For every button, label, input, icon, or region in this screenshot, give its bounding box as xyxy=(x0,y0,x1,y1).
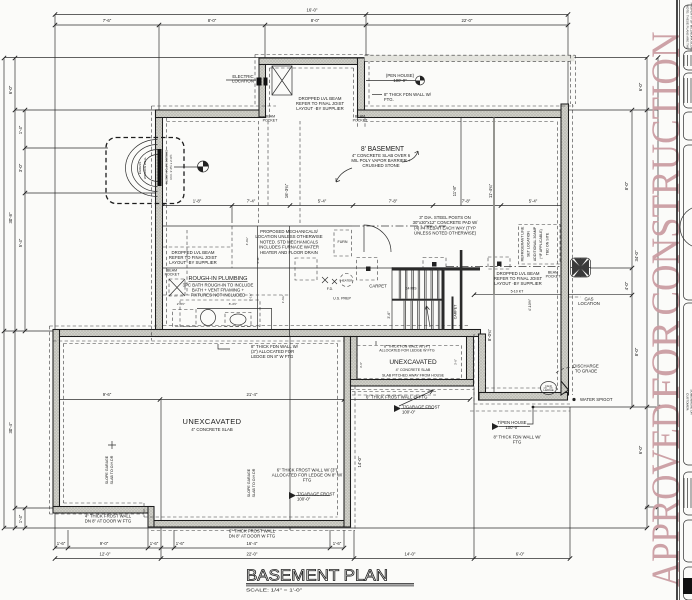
egress window well dashed box xyxy=(106,138,184,204)
extension y331 xyxy=(4,330,54,332)
wall: garage front step xyxy=(148,507,154,528)
extension y268 xyxy=(590,267,632,269)
strip circle xyxy=(680,206,692,248)
porch note leader xyxy=(375,341,377,345)
svg-text:SLIDER 3'0x2'0 EGRESS: SLIDER 3'0x2'0 EGRESS xyxy=(165,150,169,184)
svg-text:100'-0": 100'-0" xyxy=(297,497,311,502)
stair mid rail xyxy=(392,299,444,301)
svg-text:HEATER AND FLOOR DRAIN: HEATER AND FLOOR DRAIN xyxy=(260,250,318,255)
wall: patio bottom xyxy=(479,393,568,401)
ext x290 through garage xyxy=(289,336,291,530)
floor drain marks xyxy=(322,277,337,284)
extension y148 xyxy=(25,147,108,149)
extension x366 xyxy=(365,15,367,59)
garage dash east outer xyxy=(354,386,356,531)
footing dash entry inner xyxy=(270,67,354,69)
svg-text:SLOPE GARAGE: SLOPE GARAGE xyxy=(247,468,251,497)
sheet border line xyxy=(676,0,678,600)
svg-text:SLAB TO O.H.DR: SLAB TO O.H.DR xyxy=(252,468,256,497)
svg-text:21'-4": 21'-4" xyxy=(247,392,258,397)
stair treads lower run xyxy=(403,301,405,330)
wall: garage front left xyxy=(53,507,151,514)
gray beam line x494 xyxy=(493,118,495,296)
patio bottom outer dash 2 xyxy=(470,410,570,412)
T/pen house triangle marker xyxy=(492,423,499,430)
wall: patio left xyxy=(479,334,486,400)
svg-text:1'-6": 1'-6" xyxy=(57,541,66,546)
svg-text:SLAB PITCHED AWAY FROM HOUSE: SLAB PITCHED AWAY FROM HOUSE xyxy=(382,374,445,378)
ext x354 xyxy=(353,530,355,559)
title strip box 5 xyxy=(684,145,692,300)
garage dash inner bottom xyxy=(144,516,338,518)
line y268 interior xyxy=(163,267,392,269)
footing dash south inner xyxy=(163,325,470,327)
bottom dim row1 xyxy=(55,547,344,549)
svg-text:FIXTURES NOT INCLUDED: FIXTURES NOT INCLUDED xyxy=(191,293,246,298)
long extension y528 xyxy=(4,527,647,529)
interior wall x460 stairs xyxy=(460,250,463,330)
svg-text:DN 8" AT DOOR W FTG: DN 8" AT DOOR W FTG xyxy=(229,534,276,539)
footing dash entry east inner xyxy=(353,68,355,118)
svg-text:1'-4": 1'-4" xyxy=(18,514,23,523)
right dim x658 xyxy=(657,58,659,529)
svg-text:ALLOCATED FOR LEDGE W FTG: ALLOCATED FOR LEDGE W FTG xyxy=(379,349,435,353)
title strip box 9 xyxy=(684,567,692,600)
beam pocket X-box at entry xyxy=(272,66,292,95)
svg-text:14 RIS: 14 RIS xyxy=(406,287,418,291)
extension y110 left xyxy=(15,109,157,111)
garage dash west outer xyxy=(49,326,51,514)
porch bottom outer dash xyxy=(351,389,475,391)
leader 8in fdn wall note xyxy=(372,94,382,96)
left dim line x15 xyxy=(14,58,16,528)
svg-text:3'-11": 3'-11" xyxy=(256,256,260,263)
title strip box 4 xyxy=(684,112,692,140)
rear porch dash east 1 xyxy=(570,55,572,104)
svg-text:3'-6": 3'-6" xyxy=(387,311,391,319)
title strip box 1 xyxy=(684,5,692,49)
patio dim x494 xyxy=(493,295,495,400)
datum symbol 2 (pen house) xyxy=(416,76,425,85)
extension line x55 full height xyxy=(54,15,56,549)
hall dash x365 xyxy=(364,118,366,130)
extension y110 right xyxy=(565,109,658,111)
ext x174 xyxy=(173,530,175,548)
ext x148 xyxy=(147,514,149,548)
porch inner dashed rect xyxy=(357,346,462,379)
svg-text:CONSTRUCTION: CONSTRUCTION xyxy=(643,32,688,316)
svg-text:8'-0": 8'-0" xyxy=(624,181,629,190)
swoosh arrow basement note xyxy=(336,168,352,182)
svg-text:CARPET: CARPET xyxy=(454,304,458,319)
ext x474 xyxy=(473,388,475,559)
footing dash west outer xyxy=(151,106,153,341)
egress window well arcs xyxy=(126,140,158,197)
svg-text:EGRESS: EGRESS xyxy=(138,162,142,175)
svg-text:CUSTOMER:: CUSTOMER: xyxy=(686,393,690,411)
garage dash inner east xyxy=(337,344,339,518)
garage dash front-left outer xyxy=(50,513,145,515)
patio bottom inner dash xyxy=(486,387,557,389)
svg-text:LEDGE: LEDGE xyxy=(543,388,553,392)
svg-text:8'-0": 8'-0" xyxy=(208,18,217,23)
extension y193 xyxy=(25,192,157,194)
svg-text:ROUGH-IN PLUMBING: ROUGH-IN PLUMBING xyxy=(188,276,247,282)
svg-text:7'-8": 7'-8" xyxy=(462,199,471,204)
wall: house east xyxy=(561,104,569,395)
svg-text:POCKET: POCKET xyxy=(263,119,279,123)
svg-text:SLOPE GARAGE: SLOPE GARAGE xyxy=(105,455,109,484)
footing dash north-right inner xyxy=(365,121,555,123)
rear porch dashed wall band xyxy=(365,55,575,61)
datum symbol 1 xyxy=(198,161,209,172)
svg-text:30'-8": 30'-8" xyxy=(8,212,13,223)
wall: patio corner diagonal xyxy=(561,381,569,395)
footing dash east outer xyxy=(572,104,574,395)
hall dash x258 xyxy=(258,121,260,223)
dim row B top xyxy=(55,24,568,26)
svg-text:7'-1¾": 7'-1¾" xyxy=(249,293,253,301)
shower ellipse xyxy=(230,314,246,325)
hall dash x300 xyxy=(299,121,301,223)
t/pen house leader xyxy=(527,408,533,424)
ledge oval xyxy=(541,382,557,395)
patio dim y295 xyxy=(474,294,566,296)
svg-text:F.D.: F.D. xyxy=(327,287,333,291)
svg-text:WATER SPIGOT: WATER SPIGOT xyxy=(580,397,613,402)
refrigerant dashed box xyxy=(519,225,561,265)
stair treads upper run xyxy=(398,271,400,299)
svg-text:100'-0": 100'-0" xyxy=(402,410,416,415)
ext x461 xyxy=(460,118,462,206)
svg-text:9'-0": 9'-0" xyxy=(100,541,109,546)
svg-text:5'-4": 5'-4" xyxy=(529,199,538,204)
porch frost wall dash 2 xyxy=(352,394,436,396)
beam dash-dot east segment xyxy=(446,266,560,268)
svg-text:3'-6": 3'-6" xyxy=(454,359,458,365)
left dim x25 lower xyxy=(24,508,26,528)
left dim line x25 xyxy=(24,110,26,331)
svg-text:3'-0": 3'-0" xyxy=(18,163,23,172)
footing dash south lower xyxy=(53,340,344,342)
svg-text:7'-6": 7'-6" xyxy=(103,18,112,23)
svg-text:WINDOW WELL: WINDOW WELL xyxy=(143,157,147,179)
leader arrow porch xyxy=(399,390,433,406)
wall: entry east jog xyxy=(358,58,365,117)
svg-text:5'-4": 5'-4" xyxy=(318,199,327,204)
svg-text:LAYOUT ·BY SUPPLIER: LAYOUT ·BY SUPPLIER xyxy=(296,106,344,111)
svg-text:7'-4": 7'-4" xyxy=(247,199,256,204)
svg-text:SET LOCATION: SET LOCATION xyxy=(527,231,531,257)
svg-text:FTG: FTG xyxy=(513,440,522,445)
svg-text:1'-6": 1'-6" xyxy=(150,541,159,546)
svg-text:FTG.: FTG. xyxy=(384,97,394,102)
ext x68 xyxy=(67,530,69,548)
footing dash entry outer xyxy=(255,54,369,56)
steel post dashed box 2 xyxy=(423,258,446,270)
svg-text:APPROVED: APPROVED xyxy=(643,403,688,587)
wall: garage west xyxy=(53,330,60,511)
ext x232 xyxy=(231,206,233,224)
long extension y57.5 xyxy=(4,57,647,59)
left dim line outer x4 xyxy=(3,58,5,528)
garage dash inner step xyxy=(143,503,145,517)
wall: porch left xyxy=(351,337,358,387)
svg-text:DN 8" AT DOOR W FTG: DN 8" AT DOOR W FTG xyxy=(85,519,132,524)
T/garage frost triangle marker (center) xyxy=(289,492,296,499)
svg-text:12'-0": 12'-0" xyxy=(100,552,111,557)
T/garage frost triangle marker (right) xyxy=(394,405,401,412)
svg-text:HEATER: HEATER xyxy=(341,279,354,283)
svg-text:6'-0": 6'-0" xyxy=(516,552,525,557)
svg-text:1'-4": 1'-4" xyxy=(18,125,23,134)
svg-text:LOCATION: LOCATION xyxy=(232,79,254,84)
svg-text:REFRIGERANT LINE: REFRIGERANT LINE xyxy=(521,226,525,261)
beam dash-dot mid segment xyxy=(352,225,446,227)
svg-text:7'-8": 7'-8" xyxy=(389,199,398,204)
svg-text:34'-0": 34'-0" xyxy=(634,250,639,261)
wall: garage east xyxy=(344,337,351,528)
svg-text:4'-0": 4'-0" xyxy=(624,281,629,290)
porch frost wall dash 1 xyxy=(352,391,436,393)
garage dash inner top xyxy=(64,343,338,345)
title strip box 2 xyxy=(684,51,692,70)
wall: north right segment xyxy=(358,110,565,118)
svg-text:5'-4": 5'-4" xyxy=(18,238,23,247)
title strip box 8 xyxy=(684,520,692,562)
svg-text:BASEMENT PLAN: BASEMENT PLAN xyxy=(246,568,388,585)
extension x265 xyxy=(264,25,266,58)
garage dash inner bottom-left xyxy=(64,502,145,504)
svg-text:16'-4": 16'-4" xyxy=(247,541,258,546)
stair right wall xyxy=(442,271,445,331)
svg-text:LAYOUT ·BY SUPPLIER: LAYOUT ·BY SUPPLIER xyxy=(169,260,217,265)
hall dash x357 xyxy=(357,118,359,130)
svg-text:1'-6": 1'-6" xyxy=(333,541,342,546)
svg-text:4" CONCRETE SLAB: 4" CONCRETE SLAB xyxy=(396,368,431,372)
toilet ellipse xyxy=(201,310,216,326)
swoosh arrow basement note right xyxy=(402,151,419,162)
title strip box 3 xyxy=(684,73,692,108)
ext x344 xyxy=(343,530,345,548)
svg-text:NOTE: THESE PLANS ARE THE: NOTE: THESE PLANS ARE THE xyxy=(686,5,690,49)
svg-text:8'-0": 8'-0" xyxy=(311,18,320,23)
bottom dim row2 xyxy=(55,558,570,560)
svg-text:100'-0": 100'-0" xyxy=(393,78,407,83)
bath counter line xyxy=(197,308,272,310)
right dim x632 xyxy=(631,110,633,407)
svg-text:5-10 KT: 5-10 KT xyxy=(511,290,525,294)
extension x568 xyxy=(567,15,569,105)
svg-text:4'-0¾": 4'-0¾" xyxy=(245,237,249,245)
svg-text:2'-4½": 2'-4½" xyxy=(177,302,185,306)
svg-text:U.S. PREP: U.S. PREP xyxy=(333,297,351,301)
egress window bar xyxy=(158,149,162,186)
water spigot dot xyxy=(572,398,575,401)
ext x570 xyxy=(569,407,571,559)
svg-text:1'-8": 1'-8" xyxy=(193,199,202,204)
ext x161 xyxy=(160,400,162,559)
svg-text:14'-0": 14'-0" xyxy=(405,552,416,557)
stair UP arrow xyxy=(425,306,430,327)
svg-text:FURN: FURN xyxy=(338,240,348,244)
strip cells 2 xyxy=(683,78,685,103)
footing dash east inner xyxy=(557,122,559,391)
mechanicals dashed box xyxy=(295,258,317,280)
ext x330 xyxy=(329,530,331,548)
beam pocket label 4 box xyxy=(169,279,185,296)
svg-text:SCALE: 1/4" = 1'-0": SCALE: 1/4" = 1'-0" xyxy=(246,588,302,594)
svg-text:LOCATION: LOCATION xyxy=(578,301,600,306)
svg-text:CARPET: CARPET xyxy=(369,284,387,289)
garage dash front outer xyxy=(151,530,355,532)
svg-text:R.O. 3'-0½ x 2'-0½: R.O. 3'-0½ x 2'-0½ xyxy=(169,154,173,179)
svg-text:16'-0": 16'-0" xyxy=(307,8,318,13)
strip cells 1 xyxy=(683,55,685,66)
interior dim y205 xyxy=(163,205,565,207)
extension y508 xyxy=(15,507,54,509)
footing dash north-left outer xyxy=(152,105,277,107)
svg-text:30'-4": 30'-4" xyxy=(8,422,13,433)
beam center dash-dot line xyxy=(163,225,352,227)
title strip box 6 xyxy=(684,303,692,465)
svg-text:14'-0": 14'-0" xyxy=(357,456,362,467)
svg-text:(*IF APPLICABLE): (*IF APPLICABLE) xyxy=(539,229,543,259)
footing dash west inner xyxy=(166,118,168,327)
footing dash north-left inner xyxy=(167,121,256,123)
tub dashed rect xyxy=(173,310,197,327)
svg-text:11'-8": 11'-8" xyxy=(452,185,457,196)
svg-text:FTG: FTG xyxy=(303,478,312,483)
rear porch dash top xyxy=(365,54,576,56)
title strip box 7 xyxy=(684,472,692,515)
garage dash top outer xyxy=(50,325,158,327)
wall: house west xyxy=(156,110,163,337)
svg-text:FOR: FOR xyxy=(643,321,688,400)
patio bottom outer dash xyxy=(474,403,570,405)
svg-text:11'-4¾": 11'-4¾" xyxy=(488,183,493,198)
svg-text:1'-6": 1'-6" xyxy=(176,541,185,546)
rear porch dash east 2 xyxy=(575,55,577,104)
wall: garage front right xyxy=(154,521,351,528)
footing dash entry east outer xyxy=(368,55,370,107)
bath fixtures dashed outline xyxy=(180,300,260,327)
svg-text:1'-6¾": 1'-6¾" xyxy=(281,295,285,303)
svg-text:8'-0": 8'-0" xyxy=(634,347,639,356)
svg-text:TBD ON SITE: TBD ON SITE xyxy=(545,232,549,255)
steel post dashed box 3 xyxy=(488,257,510,269)
footing dash entry west inner xyxy=(269,68,271,118)
svg-text:4" CONCRETE SLAB: 4" CONCRETE SLAB xyxy=(191,427,233,432)
svg-text:16'-3¾": 16'-3¾" xyxy=(284,183,289,198)
electric meter squares xyxy=(257,78,262,86)
extension y407 xyxy=(533,406,658,408)
shower dashed box xyxy=(225,313,251,327)
svg-text:POCKET: POCKET xyxy=(165,273,181,277)
steel post dashed box 1 xyxy=(357,258,378,281)
svg-text:ADDITIONAL 30AMP: ADDITIONAL 30AMP xyxy=(533,226,537,261)
svg-text:22'-0": 22'-0" xyxy=(462,18,473,23)
bath wall x289 xyxy=(289,226,291,336)
wall: north left segment xyxy=(156,110,266,118)
wall: entry top xyxy=(259,58,365,65)
garage interior dim y399 xyxy=(55,399,470,401)
svg-text:SLAB TO O.H.DR: SLAB TO O.H.DR xyxy=(110,455,114,484)
svg-text:6'-0": 6'-0" xyxy=(8,85,13,94)
title underline double xyxy=(246,583,414,585)
strip cells 3 xyxy=(683,478,685,508)
garage dash inner west xyxy=(63,344,65,504)
wall: porch bottom xyxy=(351,380,474,387)
svg-text:8' BASEMENT: 8' BASEMENT xyxy=(361,146,405,153)
furnace dashed box xyxy=(334,230,352,256)
hall dash x268 xyxy=(267,121,269,205)
closet wall 2 xyxy=(452,297,454,331)
svg-text:3'-6": 3'-6" xyxy=(359,362,363,368)
svg-text:LAYOUT ·BY SUPPLIER: LAYOUT ·BY SUPPLIER xyxy=(494,281,542,286)
svg-text:6" THICK FROST WALL @ FTG: 6" THICK FROST WALL @ FTG xyxy=(366,395,428,400)
rear porch dash bottom xyxy=(365,60,571,62)
svg-text:POCKET: POCKET xyxy=(353,119,369,123)
svg-text:LEDGE ON 8" W FTG: LEDGE ON 8" W FTG xyxy=(251,354,294,359)
stair left edge xyxy=(391,267,393,330)
strip black square xyxy=(683,578,692,594)
garage + mark xyxy=(108,441,116,449)
svg-text:UNEXCAVATED: UNEXCAVATED xyxy=(183,417,242,426)
dim row A top xyxy=(55,14,568,16)
patio left inner dash xyxy=(485,341,487,388)
electric leader xyxy=(226,79,256,81)
footing dash north-right outer xyxy=(365,105,575,107)
discharge leader xyxy=(556,367,575,373)
extension y295 right xyxy=(566,294,632,296)
footing dash entry west outer xyxy=(254,55,256,108)
extension x159 xyxy=(158,25,160,110)
water heater dashed circle xyxy=(340,274,353,287)
svg-text:CRUSHED STONE: CRUSHED STONE xyxy=(362,163,399,168)
patio left outer dash xyxy=(473,334,475,404)
svg-text:22'-0": 22'-0" xyxy=(247,552,258,557)
svg-text:9'-6": 9'-6" xyxy=(103,392,112,397)
gas leader dash xyxy=(569,296,581,298)
meter box east wall xyxy=(571,258,591,277)
svg-text:TO GRADE: TO GRADE xyxy=(575,368,597,373)
extension y507 xyxy=(645,506,658,508)
door swing arc xyxy=(364,225,391,252)
svg-text:8'-4½": 8'-4½" xyxy=(229,302,237,306)
wall: entry west jog xyxy=(259,58,266,117)
svg-text:100'-0": 100'-0" xyxy=(505,425,519,430)
wall: porch right xyxy=(467,337,474,387)
svg-text:8'-0¾": 8'-0¾" xyxy=(487,328,492,341)
right dim x647 xyxy=(646,58,648,529)
svg-text:4'-10½": 4'-10½" xyxy=(528,298,532,311)
stair header band xyxy=(392,267,480,270)
leader ledge note xyxy=(218,344,230,349)
svg-text:POCKET: POCKET xyxy=(546,275,562,279)
svg-text:UNEXCAVATED: UNEXCAVATED xyxy=(389,359,437,366)
wall: south / garage top xyxy=(53,330,481,337)
svg-text:UNLESS NOTED OTHERWISE): UNLESS NOTED OTHERWISE) xyxy=(414,231,477,236)
bath partition dashes xyxy=(231,226,233,268)
